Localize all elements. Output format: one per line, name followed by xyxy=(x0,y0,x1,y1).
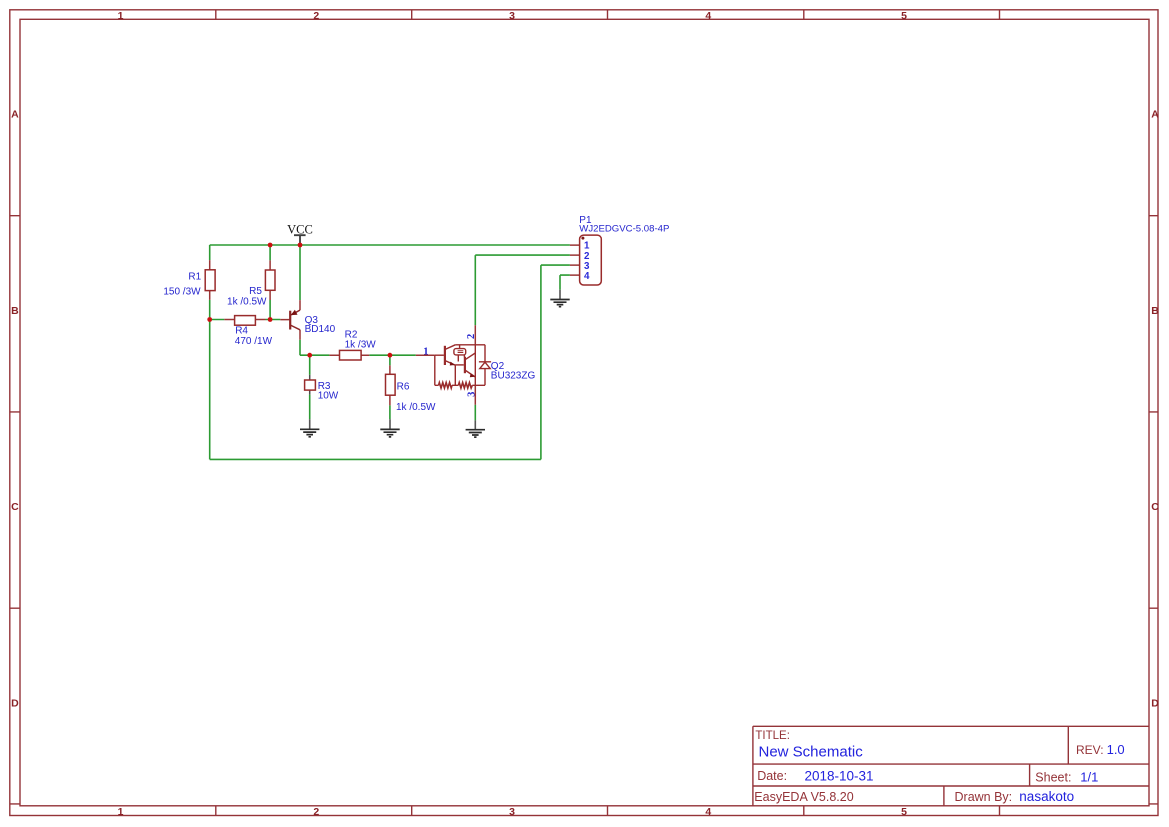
svg-text:1k /0.5W: 1k /0.5W xyxy=(227,297,267,308)
svg-text:4: 4 xyxy=(705,10,711,22)
svg-text:BD140: BD140 xyxy=(305,324,336,335)
svg-text:2018-10-31: 2018-10-31 xyxy=(805,768,874,783)
svg-text:R1: R1 xyxy=(188,272,201,283)
svg-text:1: 1 xyxy=(423,346,428,357)
svg-text:2: 2 xyxy=(313,10,319,22)
svg-text:1/1: 1/1 xyxy=(1080,769,1098,784)
svg-text:EasyEDA V5.8.20: EasyEDA V5.8.20 xyxy=(754,790,853,804)
svg-text:A: A xyxy=(11,109,19,121)
svg-text:Sheet:: Sheet: xyxy=(1035,770,1071,784)
svg-text:Date:: Date: xyxy=(757,769,787,783)
svg-text:D: D xyxy=(11,697,19,709)
svg-text:VCC: VCC xyxy=(287,222,313,236)
svg-text:5: 5 xyxy=(901,806,907,818)
svg-text:D: D xyxy=(1151,697,1159,709)
svg-text:TITLE:: TITLE: xyxy=(755,730,790,742)
svg-text:3: 3 xyxy=(509,10,515,22)
svg-text:1.0: 1.0 xyxy=(1107,742,1125,757)
svg-text:nasakoto: nasakoto xyxy=(1019,789,1074,804)
svg-text:470 /1W: 470 /1W xyxy=(235,336,273,347)
svg-text:R6: R6 xyxy=(397,382,410,393)
svg-text:1k /3W: 1k /3W xyxy=(345,340,377,351)
svg-text:1k /0.5W: 1k /0.5W xyxy=(396,402,436,413)
svg-text:3: 3 xyxy=(509,806,515,818)
svg-text:A: A xyxy=(1151,109,1159,121)
svg-text:150 /3W: 150 /3W xyxy=(163,287,201,298)
svg-text:4: 4 xyxy=(584,271,590,282)
svg-text:5: 5 xyxy=(901,10,907,22)
svg-text:B: B xyxy=(1151,305,1159,317)
svg-text:3: 3 xyxy=(466,392,477,397)
svg-text:2: 2 xyxy=(466,334,477,339)
svg-text:New Schematic: New Schematic xyxy=(759,744,864,761)
svg-text:1: 1 xyxy=(118,806,124,818)
svg-text:10W: 10W xyxy=(318,390,339,401)
svg-text:1: 1 xyxy=(118,10,124,22)
svg-text:WJ2EDGVC-5.08-4P: WJ2EDGVC-5.08-4P xyxy=(579,223,669,234)
svg-text:4: 4 xyxy=(705,806,711,818)
svg-text:BU323ZG: BU323ZG xyxy=(491,370,536,381)
svg-text:C: C xyxy=(11,501,19,513)
svg-text:R5: R5 xyxy=(249,286,262,297)
svg-text:B: B xyxy=(11,305,19,317)
svg-text:Drawn By:: Drawn By: xyxy=(955,790,1013,804)
svg-text:C: C xyxy=(1151,501,1159,513)
svg-text:2: 2 xyxy=(313,806,319,818)
svg-text:REV:: REV: xyxy=(1076,743,1104,757)
